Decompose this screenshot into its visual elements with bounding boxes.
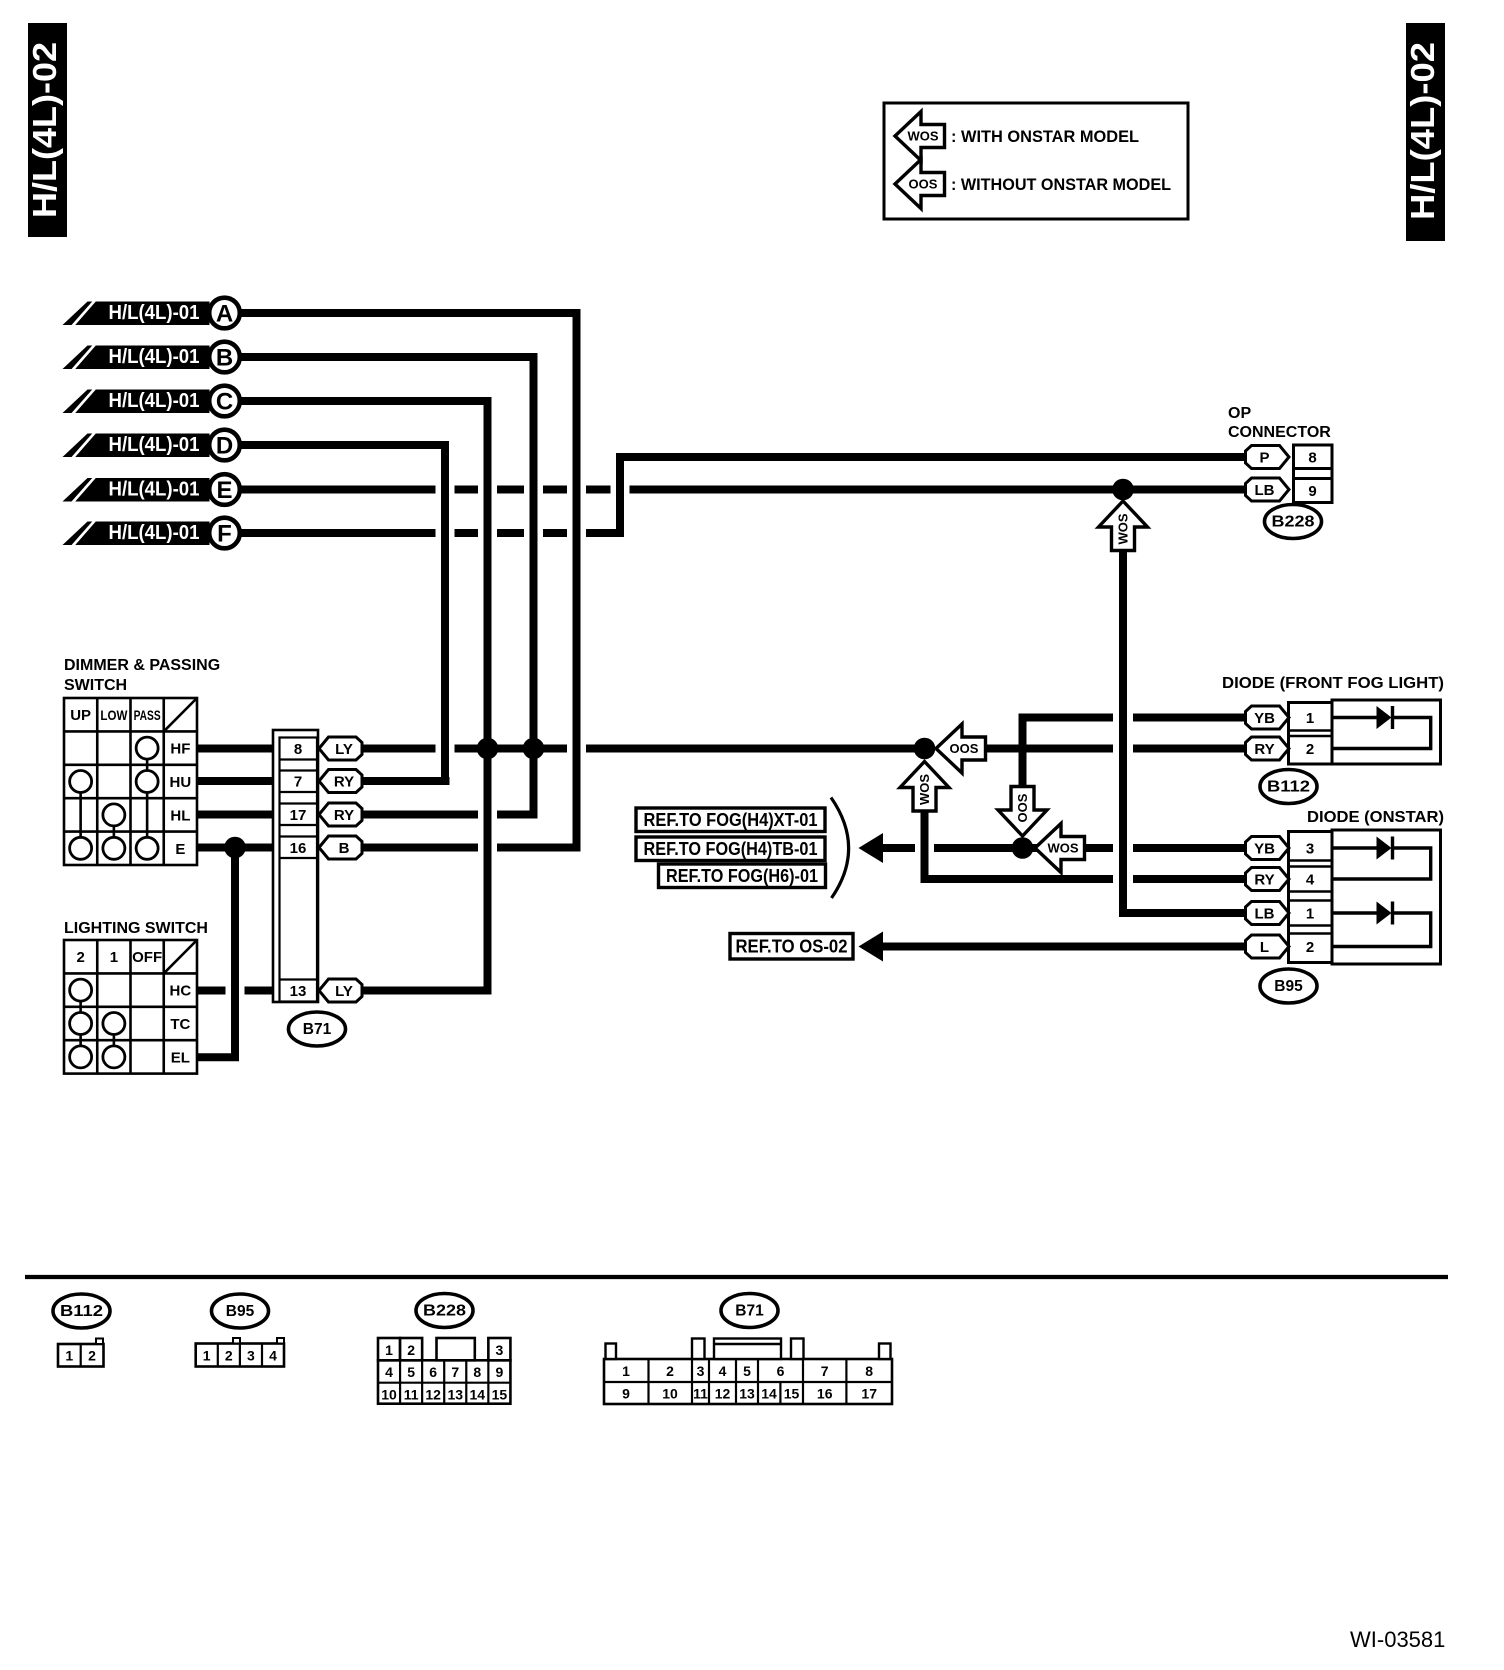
svg-text:REF.TO FOG(H4)XT-01: REF.TO FOG(H4)XT-01 — [644, 810, 818, 830]
svg-text:SWITCH: SWITCH — [64, 677, 127, 694]
svg-text:8: 8 — [473, 1364, 481, 1380]
svg-text:LB: LB — [1255, 482, 1275, 499]
svg-text:H/L(4L)-01: H/L(4L)-01 — [109, 301, 200, 324]
svg-text:9: 9 — [622, 1386, 630, 1402]
svg-text:: WITHOUT ONSTAR MODEL: : WITHOUT ONSTAR MODEL — [951, 175, 1171, 194]
svg-text:YB: YB — [1254, 841, 1275, 858]
svg-text:PASS: PASS — [134, 708, 161, 723]
svg-text:8: 8 — [1308, 450, 1316, 467]
svg-text:D: D — [216, 433, 233, 460]
svg-text:WI-03581: WI-03581 — [1350, 1627, 1445, 1652]
svg-text:RY: RY — [334, 774, 354, 791]
svg-text:2: 2 — [76, 949, 84, 966]
svg-text:TC: TC — [170, 1016, 190, 1033]
svg-text:10: 10 — [662, 1386, 678, 1402]
svg-text:UP: UP — [70, 707, 91, 724]
svg-text:WOS: WOS — [917, 774, 932, 805]
svg-text:3: 3 — [1306, 841, 1314, 858]
svg-text:LY: LY — [335, 741, 353, 758]
svg-text:B112: B112 — [1267, 779, 1310, 796]
svg-text:3: 3 — [697, 1363, 705, 1379]
svg-text:15: 15 — [492, 1387, 508, 1403]
svg-text:10: 10 — [381, 1387, 397, 1403]
svg-text:B95: B95 — [226, 1303, 255, 1320]
svg-text:H/L(4L)-02: H/L(4L)-02 — [1404, 42, 1441, 220]
svg-text:REF.TO FOG(H4)TB-01: REF.TO FOG(H4)TB-01 — [644, 839, 818, 859]
svg-text:RY: RY — [1254, 741, 1274, 758]
svg-text:H/L(4L)-01: H/L(4L)-01 — [109, 478, 200, 501]
svg-text:B71: B71 — [735, 1303, 764, 1320]
svg-text:15: 15 — [784, 1386, 800, 1402]
svg-text:1: 1 — [385, 1342, 393, 1358]
svg-text:OP: OP — [1228, 405, 1251, 422]
svg-text:B228: B228 — [423, 1303, 466, 1320]
svg-text:13: 13 — [447, 1387, 463, 1403]
svg-text:16: 16 — [290, 840, 307, 857]
svg-text:2: 2 — [225, 1348, 233, 1364]
svg-text:1: 1 — [1306, 710, 1314, 727]
svg-text:CONNECTOR: CONNECTOR — [1228, 424, 1331, 441]
svg-text:P: P — [1259, 450, 1269, 467]
svg-text:4: 4 — [269, 1348, 277, 1364]
svg-text:E: E — [175, 841, 185, 858]
svg-text:B112: B112 — [60, 1303, 103, 1320]
svg-text:14: 14 — [470, 1387, 486, 1403]
svg-text:14: 14 — [761, 1386, 777, 1402]
svg-text:7: 7 — [821, 1363, 829, 1379]
svg-text:1: 1 — [110, 949, 118, 966]
svg-text:7: 7 — [294, 774, 302, 791]
svg-text:1: 1 — [622, 1363, 630, 1379]
svg-text:2: 2 — [1306, 741, 1314, 758]
svg-text:LY: LY — [335, 983, 353, 1000]
svg-text:12: 12 — [715, 1386, 731, 1402]
svg-text:11: 11 — [693, 1386, 708, 1402]
svg-text:9: 9 — [495, 1364, 503, 1380]
svg-text:YB: YB — [1254, 710, 1275, 727]
svg-text:B228: B228 — [1272, 514, 1315, 531]
svg-text:H/L(4L)-01: H/L(4L)-01 — [109, 521, 200, 544]
svg-text:OOS: OOS — [1015, 793, 1030, 822]
svg-text:OFF: OFF — [132, 949, 162, 966]
svg-text:5: 5 — [407, 1364, 415, 1380]
svg-text:DIODE (FRONT FOG LIGHT): DIODE (FRONT FOG LIGHT) — [1222, 675, 1444, 692]
svg-text:RY: RY — [1254, 872, 1274, 889]
svg-text:WOS: WOS — [1047, 841, 1078, 856]
svg-text:DIMMER & PASSING: DIMMER & PASSING — [64, 657, 220, 674]
svg-text:H/L(4L)-01: H/L(4L)-01 — [109, 433, 200, 456]
svg-text:LB: LB — [1255, 906, 1275, 923]
svg-text:H/L(4L)-01: H/L(4L)-01 — [109, 345, 200, 368]
svg-text:REF.TO FOG(H6)-01: REF.TO FOG(H6)-01 — [666, 866, 818, 886]
svg-text:2: 2 — [407, 1342, 415, 1358]
svg-text:: WITH ONSTAR MODEL: : WITH ONSTAR MODEL — [951, 127, 1139, 146]
svg-text:5: 5 — [743, 1363, 751, 1379]
svg-text:13: 13 — [739, 1386, 755, 1402]
svg-text:B95: B95 — [1274, 978, 1303, 995]
svg-text:8: 8 — [865, 1363, 873, 1379]
svg-text:F: F — [217, 521, 232, 548]
svg-text:RY: RY — [334, 807, 354, 824]
svg-text:C: C — [216, 389, 233, 416]
svg-text:B71: B71 — [303, 1021, 332, 1038]
svg-text:HL: HL — [170, 807, 190, 824]
svg-text:17: 17 — [861, 1386, 877, 1402]
svg-text:2: 2 — [1306, 939, 1314, 956]
svg-text:8: 8 — [294, 741, 302, 758]
svg-text:HF: HF — [170, 741, 190, 758]
svg-text:H/L(4L)-02: H/L(4L)-02 — [26, 42, 63, 218]
svg-text:1: 1 — [1306, 906, 1314, 923]
svg-text:4: 4 — [385, 1364, 393, 1380]
svg-text:17: 17 — [290, 807, 307, 824]
svg-text:OOS: OOS — [950, 741, 979, 756]
svg-text:B: B — [216, 345, 233, 372]
svg-text:9: 9 — [1308, 483, 1316, 500]
svg-text:WOS: WOS — [1116, 513, 1131, 544]
svg-text:3: 3 — [495, 1342, 503, 1358]
svg-text:6: 6 — [429, 1364, 437, 1380]
svg-text:B: B — [339, 840, 350, 857]
svg-text:EL: EL — [171, 1049, 190, 1066]
svg-text:LIGHTING SWITCH: LIGHTING SWITCH — [64, 920, 208, 937]
svg-text:A: A — [216, 301, 233, 328]
svg-text:4: 4 — [719, 1363, 727, 1379]
svg-text:DIODE (ONSTAR): DIODE (ONSTAR) — [1307, 809, 1444, 826]
svg-text:11: 11 — [404, 1387, 419, 1403]
svg-text:2: 2 — [88, 1348, 96, 1364]
svg-text:LOW: LOW — [100, 708, 127, 723]
svg-text:3: 3 — [247, 1348, 255, 1364]
svg-text:HU: HU — [170, 774, 192, 791]
svg-text:12: 12 — [425, 1387, 441, 1403]
svg-text:H/L(4L)-01: H/L(4L)-01 — [109, 389, 200, 412]
svg-text:1: 1 — [65, 1348, 73, 1364]
svg-text:6: 6 — [777, 1363, 785, 1379]
svg-text:L: L — [1260, 939, 1269, 956]
svg-text:4: 4 — [1306, 872, 1315, 889]
svg-text:13: 13 — [290, 983, 307, 1000]
svg-text:E: E — [216, 477, 232, 504]
svg-text:7: 7 — [451, 1364, 459, 1380]
svg-text:REF.TO OS-02: REF.TO OS-02 — [736, 936, 848, 956]
svg-text:WOS: WOS — [907, 129, 938, 144]
svg-text:1: 1 — [203, 1348, 211, 1364]
svg-text:HC: HC — [170, 983, 192, 1000]
svg-text:2: 2 — [666, 1363, 674, 1379]
svg-text:16: 16 — [817, 1386, 833, 1402]
svg-text:OOS: OOS — [909, 177, 938, 192]
